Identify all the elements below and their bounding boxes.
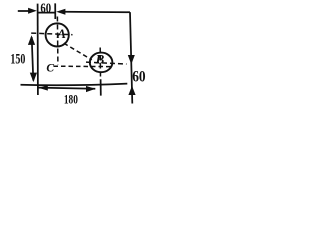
node right down arrowhead: [128, 55, 135, 64]
svg-text:60: 60: [132, 68, 145, 85]
wire left 150 dimension line: [32, 37, 34, 81]
wire right vertical line: [130, 12, 132, 103]
svg-text:A: A: [56, 26, 66, 41]
node right up arrowhead: [128, 86, 135, 95]
circle A outline: [46, 23, 69, 46]
wire B vertical dashed centerline: [99, 48, 101, 80]
wire top dimension inner line: [38, 12, 56, 14]
node 150 down arrowhead: [30, 73, 37, 83]
svg-text:C: C: [46, 62, 54, 74]
wire left long extension line: [37, 4, 39, 95]
svg-text:150: 150: [10, 52, 25, 68]
wire A horizontal dashed centerline: [31, 33, 72, 35]
node 180 left arrowhead: [38, 85, 47, 91]
wire B horizontal dashed centerline: [86, 62, 127, 64]
svg-text:60: 60: [40, 1, 51, 16]
node top-left arrowhead (points right): [28, 8, 37, 14]
node 180 right arrowhead: [86, 86, 95, 92]
wire top right extension line: [54, 3, 56, 19]
circle B outline: [90, 53, 113, 73]
wire bottom edge line: [21, 84, 128, 86]
svg-text:180: 180: [64, 91, 78, 106]
wire B extension line down: [100, 79, 102, 95]
node 150 up arrowhead: [28, 35, 35, 45]
wire top long line to corner: [64, 11, 131, 14]
wire A to B diagonal dashed: [64, 43, 92, 60]
svg-text:B: B: [95, 52, 105, 67]
wire top dimension tail: [18, 10, 29, 12]
wire C to B dashed: [54, 65, 111, 67]
wire A vertical dashed centerline down to C: [56, 17, 59, 65]
node top-right arrowhead (points left): [56, 9, 65, 15]
wire 180 dimension line: [38, 88, 95, 89]
